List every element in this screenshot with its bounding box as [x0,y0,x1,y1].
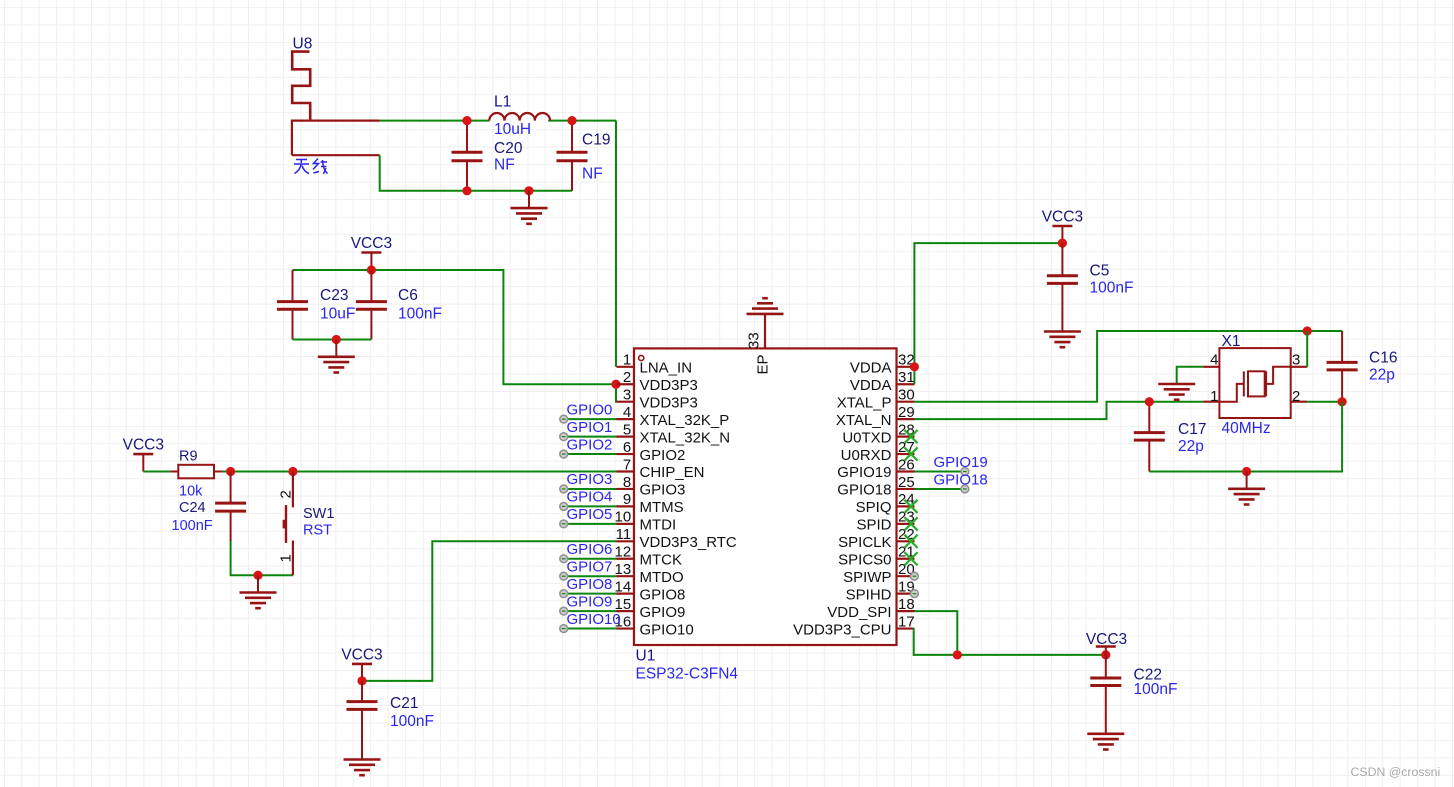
junction: C20 bottom gnd rail [462,186,471,195]
svg-text:XTAL_32K_P: XTAL_32K_P [640,412,730,429]
no-ERC marker pin13 [560,572,568,580]
no-ERC marker pin10 [560,520,568,528]
svg-text:VCC3: VCC3 [351,235,392,252]
svg-text:GPIO1: GPIO1 [567,419,613,436]
C20 designator [494,140,523,157]
svg-text:C5: C5 [1090,263,1110,280]
svg-text:13: 13 [615,561,632,578]
svg-text:31: 31 [898,369,915,386]
junction: crystal gnd rail [1242,467,1251,476]
svg-text:VDD3P3: VDD3P3 [640,394,698,411]
svg-text:8: 8 [623,474,631,491]
net label GPIO19 [934,454,988,471]
wire: L1 right to LNA vertical [548,120,616,122]
svg-text:GPIO9: GPIO9 [567,593,613,610]
svg-text:SPIQ: SPIQ [856,499,892,516]
junction: C23/C6 gnd [332,335,341,344]
no-ERC marker pin9 [560,503,568,511]
svg-text:CHIP_EN: CHIP_EN [640,464,705,481]
R9 right pin [214,471,222,473]
svg-text:3: 3 [623,387,631,404]
svg-text:5: 5 [623,421,631,438]
ground: C23/C6 [318,340,355,373]
wire: U1 pin12 net GPIO6 [567,558,616,560]
wire: C24 bottom to gnd rail [231,541,293,575]
svg-text:C21: C21 [390,695,418,712]
ground: crystal rail [1228,472,1265,505]
C17 value 22p [1178,438,1204,455]
svg-text:GPIO2: GPIO2 [567,436,613,453]
svg-text:C16: C16 [1369,350,1397,367]
svg-text:40MHz: 40MHz [1222,420,1271,437]
svg-text:ESP32-C3FN4: ESP32-C3FN4 [636,666,739,683]
wire: antenna pin2 down to gnd rail [380,155,572,191]
power port VCC3 (C21) [341,646,382,681]
R9 left pin [170,471,178,473]
svg-text:C23: C23 [320,287,348,304]
power port VCC3 (C5) [1042,209,1083,244]
svg-text:GPIO8: GPIO8 [640,586,686,603]
svg-text:SW1: SW1 [303,506,334,522]
svg-text:LNA_IN: LNA_IN [640,360,693,377]
no-ERC marker pin16 [560,625,568,633]
svg-text:VDDA: VDDA [850,377,892,394]
wire: U1 pin14 net GPIO8 [567,593,616,595]
U8 designator [293,36,313,53]
C6 designator [398,287,418,304]
net label GPIO0 [567,401,613,418]
net label GPIO8 [567,576,613,593]
U1 comment ESP32-C3FN4 [636,666,739,683]
capacitor C16 [1327,331,1358,402]
svg-text:MTCK: MTCK [640,551,683,568]
no-connect X pin21 [904,552,917,565]
wire: R9 to CHIP_EN (U1 pin7) [222,471,616,473]
svg-text:VDD3P3_RTC: VDD3P3_RTC [640,534,737,551]
svg-text:GPIO3: GPIO3 [567,471,613,488]
wire: U1 pin4 net GPIO0 [567,418,616,420]
svg-text:EP: EP [755,354,772,374]
junction: U1 pin32 [910,362,919,371]
wire: VDDA pins 32/31 to VCC3/C5 [914,243,1062,384]
svg-text:1: 1 [278,554,295,562]
wire: U1 pin5 net GPIO1 [567,436,616,438]
svg-text:NF: NF [582,166,603,183]
antenna U8 meander symbol [292,52,310,121]
svg-text:C6: C6 [398,287,418,304]
junction: C16/gnd leg [1338,397,1347,406]
junction: L1/C19 node [567,116,576,125]
svg-text:SPIHD: SPIHD [846,586,892,603]
junction: XTAL_P / X1 pin3 [1303,326,1312,335]
IC U1 body [634,348,897,645]
X1 pin number 2 [1292,388,1300,405]
svg-text:9: 9 [623,491,631,508]
U1 left pin numbers 1-16 [615,352,632,631]
L1 value 10uH [494,121,531,138]
svg-text:14: 14 [615,578,632,595]
wire: rail down to X1 pin3 [1306,331,1308,367]
wire: antenna pin1 to C20/L1 node [380,120,490,122]
svg-text:10k: 10k [179,484,203,500]
svg-text:SPIWP: SPIWP [843,569,891,586]
wire: U1 pin8 net GPIO3 [567,488,616,490]
capacitor C19 [557,121,588,191]
svg-text:GPIO9: GPIO9 [640,604,686,621]
no-connect X pin28 [904,430,917,443]
ground: EP (flipped) [747,298,784,331]
C24 value 100nF [172,518,213,534]
junction: gnd stem on rail [524,186,533,195]
svg-text:X1: X1 [1222,333,1241,350]
C5 designator [1090,263,1110,280]
svg-text:GPIO19: GPIO19 [837,464,891,481]
svg-text:100nF: 100nF [172,518,213,534]
power port VCC3 (C22) [1086,631,1127,655]
no-ERC marker pin14 [560,590,568,598]
SW1 pin number 1 [278,554,295,562]
EP pin name [755,354,772,374]
C16 designator [1369,350,1397,367]
wire: branch down to U1 pin3 VDD3P3 [616,384,617,401]
svg-text:C20: C20 [494,140,523,157]
wire: U1 pin16 net GPIO10 [567,628,616,630]
svg-text:GPIO10: GPIO10 [640,621,694,638]
ground: C21 [344,742,381,775]
svg-text:GPIO4: GPIO4 [567,489,613,506]
junction: at U1 pin2 [611,380,620,389]
C19 value NF [582,166,603,183]
C24 designator [179,500,206,516]
C22 value 100nF [1134,681,1178,698]
X1 pin 4 stub [1203,366,1219,368]
R9 designator [179,449,198,465]
svg-text:R9: R9 [179,449,198,465]
junction: gnd stem below C24 [253,571,262,580]
svg-text:VDD3P3: VDD3P3 [640,377,698,394]
wire: C23/C6 bottom [293,339,372,341]
svg-text:33: 33 [746,332,763,349]
svg-text:XTAL_32K_N: XTAL_32K_N [640,429,731,446]
U8 pin 2 line [292,120,380,156]
svg-text:GPIO0: GPIO0 [567,401,613,418]
C20 value NF [494,157,515,174]
U1 designator [636,648,656,665]
svg-text:VCC3: VCC3 [1086,631,1127,648]
U1 left pin names [640,360,737,639]
svg-text:XTAL_P: XTAL_P [837,394,892,411]
junction: pin18 rail [953,650,962,659]
ground: C24/SW1 [240,575,277,608]
junction: C24 tap [226,467,235,476]
switch SW1 pin 1 [292,541,294,576]
svg-text:25: 25 [898,474,915,491]
ground: X1 pin4 (no stem) [1158,384,1195,400]
C17 designator [1178,421,1206,438]
svg-text:VCC3: VCC3 [1042,209,1083,226]
svg-text:GPIO3: GPIO3 [640,482,686,499]
junction: VCC3/C22 [1101,650,1110,659]
C23 designator [320,287,348,304]
svg-text:U1: U1 [636,648,656,665]
svg-text:GPIO7: GPIO7 [567,558,613,575]
capacitor C5 [1047,243,1078,314]
wire: U1 pin25 net GPIO18 [915,488,962,490]
ground: antenna LC filter [511,191,548,224]
no-ERC marker pin25 [961,485,969,493]
capacitor C24 [215,472,246,542]
svg-text:10: 10 [615,509,632,526]
svg-text:GPIO19: GPIO19 [934,454,988,471]
capacitor C23 [277,270,308,340]
junction: VCC3/C6 stem [367,265,376,274]
svg-text:17: 17 [898,613,915,630]
svg-text:12: 12 [615,544,632,561]
X1 designator [1222,333,1241,350]
svg-text:6: 6 [623,439,631,456]
svg-text:VDD3P3_CPU: VDD3P3_CPU [793,621,891,638]
svg-text:10uF: 10uF [320,306,355,323]
wire: XTAL_P (pin30) to crystal rail [915,331,1343,402]
svg-text:GPIO18: GPIO18 [837,482,891,499]
X1 value 40MHz [1222,420,1271,437]
svg-text:VCC3: VCC3 [123,437,164,454]
svg-text:SPICS0: SPICS0 [838,551,891,568]
U8 comment 天线 (antenna) drawn glyphs [294,159,328,174]
no-ERC marker pin19 [911,590,919,598]
capacitor C21 [347,681,378,760]
U1 pin1 indicator circle [639,355,644,360]
wire: node down to U1 pin1 LNA_IN [615,121,617,367]
wire: VCC3 to R9 [143,471,170,473]
net label GPIO3 [567,471,613,488]
junction: antenna/C20 node [462,116,471,125]
svg-text:2: 2 [623,369,631,386]
C5 value 100nF [1090,280,1134,297]
ground: C5 [1044,314,1081,347]
C22 designator [1134,667,1162,684]
svg-text:NF: NF [494,157,515,174]
junction: SW1 tap [288,467,297,476]
U1 left pin stubs 1-16 [617,367,635,629]
capacitor C17 [1134,402,1165,472]
no-ERC marker pin5 [560,433,568,441]
svg-text:GPIO8: GPIO8 [567,576,613,593]
X1 pin 2 stub [1291,401,1308,403]
net label GPIO4 [567,489,613,506]
R9 value 10k [179,484,203,500]
SW1 pin number 2 [278,490,295,498]
svg-text:MTDI: MTDI [640,517,677,534]
svg-text:2: 2 [278,490,295,498]
U1 right pin names [793,360,892,639]
svg-text:100nF: 100nF [390,713,434,730]
net label GPIO7 [567,558,613,575]
svg-text:22p: 22p [1369,367,1395,384]
svg-text:VCC3: VCC3 [341,646,382,663]
svg-text:18: 18 [898,596,915,613]
capacitor C22 [1090,655,1121,717]
svg-text:XTAL_N: XTAL_N [836,412,892,429]
svg-text:GPIO6: GPIO6 [567,541,613,558]
junction: C17 top / XTAL_N [1145,397,1154,406]
U8 pin 1 line [292,119,380,121]
svg-text:C19: C19 [582,132,610,149]
svg-text:C17: C17 [1178,421,1206,438]
svg-text:GPIO5: GPIO5 [567,506,613,523]
no-ERC marker pin15 [560,607,568,615]
svg-text:L1: L1 [494,94,511,111]
wire: X1 pin4 to ground [1177,367,1204,383]
net label GPIO2 [567,436,613,453]
svg-text:100nF: 100nF [1134,681,1178,698]
wire: X1 pin2 to C16 bottom [1307,401,1342,403]
svg-text:10uH: 10uH [494,121,531,138]
C19 designator [582,132,610,149]
no-ERC marker pin8 [560,485,568,493]
ground: C22 [1087,717,1124,750]
C16 value 22p [1369,367,1395,384]
svg-text:SPID: SPID [856,517,891,534]
switch SW1 actuator [283,505,287,543]
svg-text:4: 4 [1210,352,1218,369]
svg-text:4: 4 [623,404,631,421]
svg-text:SPICLK: SPICLK [838,534,891,551]
no-connect X pin27 [904,447,917,460]
svg-text:MTDO: MTDO [640,569,684,586]
svg-text:30: 30 [898,387,915,404]
net label GPIO6 [567,541,613,558]
SW1 comment RST [303,523,332,539]
X1 pin 1 stub [1203,401,1219,403]
svg-text:GPIO10: GPIO10 [567,611,621,628]
C21 value 100nF [390,713,434,730]
X1 pin number 1 [1210,388,1218,405]
wire: VDD3P3_RTC (U1 pin11) to C21/VCC3 [362,541,617,681]
wire: VDD3P3_CPU (pin17) to VCC3/C22 [914,629,1106,655]
svg-text:VDD_SPI: VDD_SPI [827,604,891,621]
inductor L1 [489,113,550,121]
svg-text:3: 3 [1292,352,1300,369]
resistor R9 [178,465,214,479]
watermark CSDN @crossni [1351,765,1441,779]
no-connect X pin24 [904,500,917,513]
capacitor C6 [356,270,387,340]
svg-text:MTMS: MTMS [640,499,684,516]
no-connect X pin22 [904,535,917,548]
svg-text:29: 29 [898,404,915,421]
svg-text:U0RXD: U0RXD [841,447,892,464]
svg-text:22p: 22p [1178,438,1204,455]
wire: U1 pin9 net GPIO4 [567,505,616,507]
wire: VCC3 rail to U1 pin2 VDD3P3 [293,270,617,384]
no-ERC marker pin6 [560,450,568,458]
power port VCC3 (R9) [123,437,164,472]
no-ERC marker pin12 [560,555,568,563]
U1 right pin numbers 32-17 [898,352,915,631]
svg-text:7: 7 [623,456,631,473]
net label GPIO9 [567,593,613,610]
wire: U1 pin6 net GPIO2 [567,453,616,455]
X1 pin number 4 [1210,352,1218,369]
net label GPIO10 [567,611,621,628]
X1 quartz element [1219,367,1290,402]
svg-text:100nF: 100nF [1090,280,1134,297]
net label GPIO1 [567,419,613,436]
no-ERC marker pin26 [961,468,969,476]
junction: VCC3/C21 [357,676,366,685]
svg-text:GPIO2: GPIO2 [640,447,686,464]
C23 value 10uF [320,306,355,323]
wire: VDD_SPI (pin18) down to 3V3 rail [915,611,958,655]
capacitor C20 [452,121,483,191]
svg-text:GPIO18: GPIO18 [934,472,988,489]
svg-text:C24: C24 [179,500,206,516]
no-ERC marker pin20 [911,572,919,580]
power port VCC3 (C23/C6) [351,235,392,270]
X1 pin 3 stub [1291,366,1308,368]
svg-text:CSDN @crossni: CSDN @crossni [1351,765,1441,779]
C6 value 100nF [398,306,442,323]
junction: VCC3/C5 [1058,239,1067,248]
svg-text:2: 2 [1292,388,1300,405]
svg-text:11: 11 [616,526,632,543]
wire: U1 pin26 net GPIO19 [915,471,962,473]
net label GPIO18 [934,472,988,489]
wire: U1 pin15 net GPIO9 [567,610,616,612]
wire: XTAL_N (pin29) to crystal [915,402,1204,419]
L1 designator [494,94,511,111]
wire: U1 pin10 net GPIO5 [567,523,616,525]
EP pin number 33 [746,332,763,349]
U1 EP pin 33 stub [764,314,766,348]
svg-text:1: 1 [1210,388,1218,405]
svg-text:VDDA: VDDA [850,360,892,377]
no-ERC marker pin4 [560,415,568,423]
no-connect X pin23 [904,517,917,530]
wire: U1 pin13 net GPIO7 [567,575,616,577]
wire: gnd leg down and across [1149,402,1342,472]
C21 designator [390,695,418,712]
U1 right pin stubs 32-17 [897,367,915,629]
svg-text:U8: U8 [293,36,313,53]
SW1 designator [303,506,334,522]
svg-text:100nF: 100nF [398,306,442,323]
crystal X1 body [1219,348,1290,418]
svg-text:1: 1 [623,352,631,369]
svg-text:RST: RST [303,523,332,539]
net label GPIO5 [567,506,613,523]
switch SW1 pin 2 [292,472,294,508]
X1 pin number 3 [1292,352,1300,369]
svg-text:U0TXD: U0TXD [842,429,891,446]
